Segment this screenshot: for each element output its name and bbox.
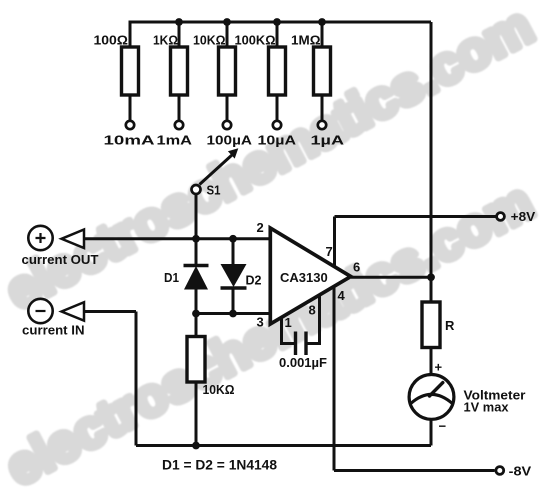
switch S1 pole circle: [192, 185, 201, 194]
terminal current OUT circle: [28, 226, 52, 250]
wire 10K top lead: [195, 314, 198, 337]
svg-text:10mA: 10mA: [104, 133, 156, 148]
wire pin7 to +8V: [335, 215, 497, 218]
minus sign in current IN: [36, 310, 46, 312]
svg-text:S1: S1: [207, 183, 221, 198]
svg-text:10KΩ: 10KΩ: [203, 382, 235, 397]
svg-text:7: 7: [326, 244, 333, 259]
arrowhead current OUT: [62, 230, 85, 249]
voltmeter needle: [430, 383, 443, 396]
wire current IN horizontal: [84, 310, 136, 313]
diode D2: [221, 239, 247, 314]
svg-text:10µA: 10µA: [258, 133, 297, 148]
junction dot D2 on pin2 net: [229, 235, 237, 243]
svg-text:1V max: 1V max: [464, 400, 510, 415]
svg-text:+: +: [435, 360, 443, 375]
terminal -8V circle: [496, 467, 504, 475]
wire R5 bottom lead: [321, 95, 324, 121]
plus sign in current OUT: [36, 233, 46, 243]
wire 10K bottom lead: [195, 382, 198, 446]
wire R2 bottom lead: [178, 95, 181, 121]
svg-text:3: 3: [257, 315, 264, 330]
svg-text:100µA: 100µA: [207, 133, 253, 148]
wire R5 top lead: [321, 22, 324, 47]
wire voltmeter bottom: [430, 419, 433, 445]
svg-text:10KΩ: 10KΩ: [193, 33, 226, 48]
junction dot top rail R4: [273, 18, 281, 26]
voltmeter scale arc: [411, 394, 453, 404]
wire R4 top lead: [276, 22, 279, 47]
svg-text:2: 2: [257, 220, 264, 235]
resistor 100K body: [269, 47, 286, 95]
terminal 10mA: [126, 121, 134, 129]
wire S1 down to inverting net: [195, 195, 198, 239]
resistor R body: [422, 302, 440, 348]
junction dot D1 on pin3 net: [192, 310, 200, 318]
wire current IN vertical down to bottom rail: [135, 312, 138, 446]
terminal 1uA: [318, 121, 326, 129]
svg-text:−: −: [439, 419, 447, 434]
terminal 1mA: [175, 121, 183, 129]
terminal current IN circle: [28, 299, 52, 323]
wire bottom rail: [136, 444, 431, 447]
arrowhead current IN: [62, 302, 85, 321]
wire pin4 to -8V: [334, 469, 495, 472]
wire R bottom lead to voltmeter: [430, 348, 433, 375]
svg-text:1µA: 1µA: [311, 133, 345, 148]
wire R4 bottom lead: [276, 95, 279, 121]
wire R1 top lead: [129, 22, 132, 47]
diode D1: [184, 239, 209, 314]
terminal 100uA: [223, 121, 231, 129]
op-amp U1 CA3130 triangle: [270, 228, 351, 324]
capacitor C1 left plate: [294, 332, 297, 356]
svg-text:100KΩ: 100KΩ: [235, 33, 276, 48]
svg-text:100Ω: 100Ω: [94, 33, 129, 48]
wire R top lead: [430, 277, 433, 302]
terminal 10uA: [273, 121, 281, 129]
wire R2 top lead: [178, 22, 181, 47]
wire pin8: [306, 296, 320, 344]
svg-text:1KΩ: 1KΩ: [153, 33, 178, 48]
wire pin4 vertical: [333, 286, 336, 471]
wire pin7 vertical: [333, 217, 336, 267]
wire R1 bottom lead: [129, 95, 132, 121]
svg-text:4: 4: [338, 288, 346, 303]
svg-text:D1: D1: [164, 270, 179, 285]
wire inverting input net (pin 2): [84, 237, 270, 240]
svg-text:current OUT: current OUT: [22, 252, 99, 267]
svg-text:R: R: [445, 318, 455, 333]
resistor 10K body: [187, 337, 205, 383]
capacitor C1 right plate: [304, 332, 307, 356]
junction dot top rail R5: [318, 18, 326, 26]
wire pin1: [282, 318, 296, 344]
svg-text:D2: D2: [246, 273, 262, 288]
svg-text:6: 6: [353, 260, 360, 275]
svg-text:1MΩ: 1MΩ: [291, 33, 321, 48]
wire pin6 output: [351, 276, 431, 279]
junction dot pin6 node: [427, 273, 435, 281]
svg-text:+8V: +8V: [511, 209, 536, 224]
svg-text:1mA: 1mA: [157, 133, 193, 148]
junction dot top rail R2: [175, 18, 183, 26]
svg-text:8: 8: [309, 303, 316, 318]
junction dot D2 on pin3 net: [229, 310, 237, 318]
svg-text:1: 1: [285, 315, 292, 330]
junction dot top rail R3: [223, 18, 231, 26]
resistor 10K range body: [219, 47, 236, 95]
resistor 1M body: [314, 47, 331, 95]
svg-text:-8V: -8V: [509, 464, 532, 479]
resistor 100R body: [122, 47, 139, 95]
svg-text:current IN: current IN: [22, 323, 85, 338]
resistor 1K body: [171, 47, 188, 95]
wire R3 top lead: [226, 22, 229, 47]
junction dot S1/D1 on pin2 net: [192, 235, 200, 243]
terminal +8V circle: [497, 213, 505, 221]
svg-text:D1 = D2 = 1N4148: D1 = D2 = 1N4148: [162, 458, 277, 473]
voltmeter M1 circle: [409, 375, 454, 420]
wire non-inverting net (pin 3): [196, 312, 270, 315]
switch S1 wiper arrow: [200, 148, 239, 184]
junction dot 10K bottom rail: [192, 442, 200, 450]
svg-text:0.001µF: 0.001µF: [279, 355, 327, 370]
svg-text:CA3130: CA3130: [280, 270, 328, 285]
wire right vertical from top rail to pin6 node: [430, 22, 433, 277]
wire R3 bottom lead: [226, 95, 229, 121]
wire top rail: [130, 22, 431, 47]
